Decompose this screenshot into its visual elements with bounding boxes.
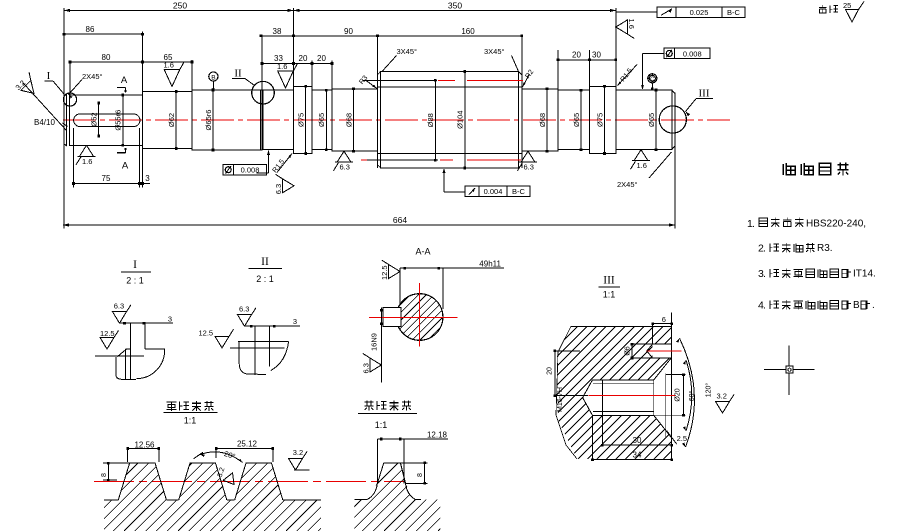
svg-text:Ø20: Ø20: [675, 388, 682, 401]
svg-text:2.5: 2.5: [677, 434, 687, 443]
svg-text:86: 86: [86, 25, 95, 34]
svg-text:12.5: 12.5: [100, 329, 115, 338]
svg-text:8: 8: [101, 473, 108, 477]
svg-text:.: .: [763, 243, 766, 255]
svg-text:Ø52: Ø52: [90, 112, 99, 126]
svg-text:20: 20: [317, 54, 326, 63]
svg-text:34: 34: [633, 451, 642, 460]
svg-text:1:1: 1:1: [184, 416, 197, 426]
svg-text:.: .: [763, 300, 766, 312]
svg-text:75: 75: [102, 174, 111, 183]
svg-text:12.5: 12.5: [199, 329, 214, 338]
svg-text:I: I: [47, 70, 51, 82]
svg-text:120°: 120°: [705, 383, 713, 398]
svg-text:6.3: 6.3: [524, 163, 534, 172]
svg-text:1.6: 1.6: [627, 19, 636, 29]
svg-text:3X45°: 3X45°: [397, 47, 418, 56]
svg-text:8: 8: [417, 473, 424, 477]
svg-text:Ø6: Ø6: [625, 346, 632, 355]
svg-text:6.3: 6.3: [340, 163, 350, 172]
svg-text:0.004: 0.004: [484, 187, 503, 196]
svg-text:Ø55r6: Ø55r6: [114, 110, 123, 131]
svg-text:160: 160: [461, 27, 475, 36]
svg-text:20: 20: [572, 50, 581, 59]
svg-text:12.18: 12.18: [427, 431, 448, 440]
svg-text:49h11: 49h11: [479, 260, 501, 269]
svg-text:350: 350: [448, 1, 462, 11]
svg-text:Ø88: Ø88: [426, 113, 435, 127]
svg-text:25.12: 25.12: [237, 440, 258, 449]
svg-text:III: III: [603, 275, 615, 287]
svg-text:2 : 1: 2 : 1: [256, 274, 274, 284]
svg-text:Ø65: Ø65: [647, 113, 656, 127]
svg-text:C: C: [650, 77, 655, 83]
svg-text:B4/10: B4/10: [34, 118, 55, 127]
svg-text:Ø62: Ø62: [167, 113, 176, 127]
svg-text:6.3: 6.3: [361, 363, 370, 373]
svg-text:B: B: [853, 300, 860, 311]
svg-text:Ø75: Ø75: [297, 113, 306, 127]
svg-text:R3.: R3.: [817, 243, 833, 254]
svg-text:B-C: B-C: [512, 187, 526, 196]
svg-text:25: 25: [843, 1, 851, 10]
svg-text:1.6: 1.6: [164, 61, 174, 70]
svg-text:90: 90: [344, 27, 353, 36]
svg-text:Ø65: Ø65: [572, 113, 581, 127]
svg-text:.: .: [872, 300, 875, 311]
svg-text:20: 20: [299, 54, 308, 63]
svg-text:6.3: 6.3: [114, 302, 124, 311]
svg-text:80: 80: [102, 53, 111, 62]
svg-text:2X45°: 2X45°: [82, 72, 103, 81]
svg-text:30: 30: [592, 50, 601, 59]
svg-text:6.3: 6.3: [274, 184, 283, 194]
svg-text:Ø68: Ø68: [538, 113, 547, 127]
svg-text:2 : 1: 2 : 1: [126, 276, 144, 286]
svg-text:30: 30: [633, 436, 642, 445]
svg-text:A: A: [122, 161, 129, 172]
svg-text:6.3: 6.3: [239, 305, 249, 314]
svg-text:Ø65: Ø65: [317, 113, 326, 127]
svg-text:12.5: 12.5: [380, 265, 389, 280]
svg-text:16N9: 16N9: [370, 333, 379, 351]
svg-text:20: 20: [547, 367, 554, 375]
svg-text:Ø65r6: Ø65r6: [204, 110, 213, 131]
svg-text:3.2: 3.2: [717, 392, 727, 401]
svg-text:664: 664: [393, 215, 407, 225]
svg-text:12.56: 12.56: [134, 440, 155, 449]
svg-text:.: .: [752, 218, 755, 230]
svg-text:A: A: [121, 75, 128, 86]
svg-text:3: 3: [168, 315, 172, 324]
svg-text:1.6: 1.6: [277, 62, 287, 71]
svg-text:Ø68: Ø68: [344, 113, 353, 127]
svg-text:IT14.: IT14.: [853, 269, 876, 280]
svg-text:B: B: [211, 75, 215, 82]
svg-text:6: 6: [662, 315, 666, 324]
svg-text:3.2: 3.2: [293, 448, 303, 457]
svg-text:3X45°: 3X45°: [484, 47, 505, 56]
svg-text:1.6: 1.6: [82, 157, 92, 166]
svg-text:3: 3: [293, 317, 297, 326]
svg-text:II: II: [261, 256, 269, 268]
svg-text:III: III: [699, 88, 710, 100]
svg-text:A-A: A-A: [415, 247, 430, 257]
svg-text:1.6: 1.6: [637, 161, 647, 170]
svg-text:II: II: [234, 68, 242, 80]
svg-text:1:1: 1:1: [375, 420, 388, 430]
svg-text:1:1: 1:1: [603, 290, 616, 300]
svg-text:M16-7H: M16-7H: [557, 387, 564, 412]
svg-text:0.025: 0.025: [690, 8, 709, 17]
svg-text:2X45°: 2X45°: [617, 180, 638, 189]
svg-text:I: I: [133, 259, 137, 271]
svg-text:.: .: [763, 268, 766, 280]
svg-text:Ø75: Ø75: [595, 113, 604, 127]
svg-text:3: 3: [145, 174, 150, 183]
svg-text:B-C: B-C: [727, 8, 741, 17]
svg-text:Ø104: Ø104: [456, 111, 465, 129]
svg-text:0.008: 0.008: [683, 49, 702, 58]
svg-text:38: 38: [273, 27, 282, 36]
svg-text:250: 250: [173, 1, 187, 11]
svg-text:HBS220-240,: HBS220-240,: [806, 219, 866, 230]
